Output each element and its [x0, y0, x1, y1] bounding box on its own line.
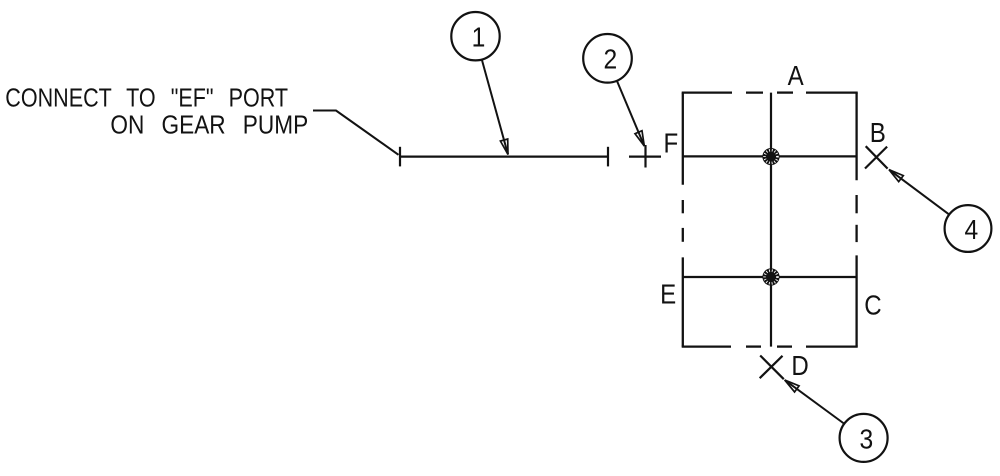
balloon 2 arrowhead	[635, 131, 644, 146]
note text "CONNECT TO "EF" PORT"	[5, 85, 288, 113]
balloon 1 arrowhead	[500, 139, 508, 155]
port D label	[791, 349, 808, 381]
fitting item2: vertical tick	[644, 145, 646, 168]
svg-text:CONNECT TO "EF" PORT: CONNECT TO "EF" PORT	[5, 85, 288, 113]
balloon 3 circle	[840, 414, 888, 462]
balloon 4 arrowhead	[889, 170, 903, 182]
port A label	[788, 59, 805, 91]
manifold bottom edge right solid segment	[806, 345, 858, 347]
balloon 1 circle	[451, 12, 499, 60]
balloon 4 leader	[889, 170, 949, 215]
manifold bottom edge dash 1	[746, 345, 761, 347]
internal gallery E-C horizontal line	[683, 276, 857, 278]
svg-text:D: D	[791, 349, 808, 381]
junction dot upper	[762, 148, 779, 165]
manifold right edge dash 2	[855, 225, 857, 242]
balloon 2 leader	[617, 81, 644, 146]
svg-text:F: F	[664, 127, 679, 159]
svg-text:2: 2	[603, 43, 617, 75]
hose item1: right end tick	[607, 147, 609, 167]
port C label	[864, 289, 881, 321]
manifold top edge right solid segment	[806, 91, 858, 93]
junction dot lower	[762, 268, 779, 285]
svg-text:B: B	[870, 116, 886, 148]
port B label	[870, 116, 886, 148]
balloon 2 digit	[603, 43, 617, 75]
balloon 3 arrowhead	[785, 380, 799, 392]
plug X at port B stroke 2	[865, 147, 887, 169]
manifold bottom edge left solid segment	[682, 345, 731, 347]
manifold top edge dash 2	[777, 91, 793, 93]
svg-text:ON GEAR PUMP: ON GEAR PUMP	[110, 111, 308, 140]
plug X at port B stroke 1	[866, 146, 888, 168]
svg-text:A: A	[788, 59, 805, 91]
manifold right edge lower solid segment	[855, 255, 857, 346]
manifold top edge dash 1	[746, 91, 763, 93]
manifold left edge dash 1	[682, 200, 684, 213]
svg-text:3: 3	[859, 423, 873, 455]
manifold top edge left solid segment	[682, 91, 732, 93]
hose item1: hose line	[400, 156, 608, 158]
manifold right edge dash 1	[855, 195, 857, 213]
plug X at port D stroke 2	[760, 356, 783, 378]
internal gallery F-B horizontal line	[683, 155, 857, 157]
balloon 2 circle	[583, 34, 632, 83]
balloon 3 digit	[859, 423, 873, 455]
manifold left edge upper solid segment	[682, 93, 684, 185]
leader from note to hose	[313, 111, 399, 155]
hose item1: left end tick	[399, 147, 401, 167]
svg-text:4: 4	[965, 214, 979, 246]
internal vertical gallery A-D	[770, 93, 772, 347]
note text "ON GEAR PUMP"	[110, 111, 308, 140]
balloon 3 leader	[785, 380, 844, 424]
manifold left edge dash 2	[682, 228, 684, 242]
balloon 4 digit	[965, 214, 979, 246]
balloon 1 leader	[482, 60, 508, 155]
manifold bottom edge dash 2	[777, 345, 792, 347]
manifold left edge lower solid segment	[682, 257, 684, 346]
balloon 1 digit	[472, 21, 486, 53]
manifold right edge upper solid segment	[855, 93, 857, 181]
port F label	[664, 127, 679, 159]
plug X at port D stroke 1	[760, 356, 784, 380]
svg-text:1: 1	[472, 21, 486, 53]
balloon 4 circle	[945, 205, 992, 252]
svg-text:C: C	[864, 289, 881, 321]
port E label	[660, 278, 676, 310]
svg-text:E: E	[660, 278, 676, 310]
fitting item2: horizontal stub	[629, 156, 661, 158]
